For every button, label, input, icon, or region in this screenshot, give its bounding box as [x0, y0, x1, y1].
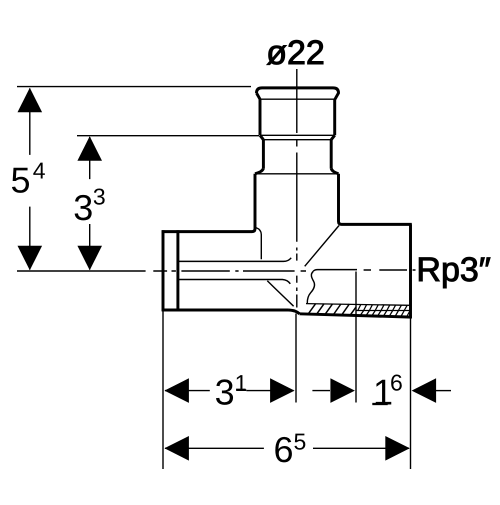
branch base left wall [252, 174, 255, 232]
flare bottom edge [255, 173, 339, 175]
label 3^1 [215, 370, 248, 413]
label 3^3 [73, 184, 105, 228]
svg-text:3: 3 [73, 187, 93, 228]
bottom extension line branch center [295, 314, 297, 403]
press groove lower ledge [263, 139, 331, 141]
dimension 65 arrows [164, 436, 409, 461]
press groove upper ledge [260, 134, 335, 136]
body bottom edge left [162, 309, 289, 312]
body left face [162, 230, 165, 311]
dimension 65 line [165, 447, 409, 449]
bottom extension line right [410, 319, 412, 470]
socket upper walls [260, 99, 335, 135]
branch base right wall [339, 174, 342, 225]
dimension 31 line [165, 390, 294, 392]
bottom extension line left [162, 312, 164, 470]
branch vertical centerline [296, 69, 298, 308]
dimension 16 left outside arrow [312, 390, 330, 392]
bottom extension line thread start [355, 272, 357, 403]
bottom step curve [289, 310, 300, 314]
svg-text:5: 5 [10, 159, 30, 200]
body right face [409, 224, 412, 318]
svg-text:3: 3 [215, 372, 235, 413]
svg-text:4: 4 [33, 157, 46, 183]
dimension 54 arrows [18, 88, 43, 271]
interior sweep curve [267, 281, 293, 306]
svg-text:1: 1 [235, 370, 248, 396]
socket flare [255, 168, 339, 174]
dimension 33 extension line [77, 135, 259, 137]
thread break wavy line [307, 271, 314, 303]
label 5^4 [10, 157, 45, 200]
dimension 54 extension line top [17, 86, 251, 88]
fine hatch strokes lower row [361, 311, 410, 317]
coarse hatch strokes [308, 304, 356, 315]
dimension 16 right outside arrow [436, 390, 451, 392]
dimension 54 line [29, 89, 31, 270]
svg-text:3: 3 [93, 184, 106, 210]
upper bore line [179, 258, 291, 262]
dimension 33 arrows [77, 136, 102, 270]
body bottom edge right [300, 314, 412, 317]
press groove slants [260, 135, 335, 139]
thread section hatch middle line [356, 310, 410, 312]
svg-text:Rp3″: Rp3″ [416, 251, 490, 289]
horizontal run centerline [17, 270, 416, 271]
branch interior left wall [256, 228, 261, 260]
svg-text:ø22: ø22 [266, 34, 325, 72]
thread section hatch top line [306, 304, 410, 306]
bead bottom edge [259, 98, 336, 100]
svg-text:5: 5 [294, 428, 307, 454]
label 6^5 [274, 428, 307, 470]
dimension 31 arrows [164, 378, 294, 403]
dimension 33 line [89, 137, 91, 270]
label 1^6 [372, 370, 402, 413]
left socket bead inner line [176, 230, 179, 311]
svg-text:6: 6 [390, 370, 403, 396]
fine hatch strokes upper row [358, 305, 407, 311]
top press socket bead [257, 88, 339, 99]
body top edge right [342, 223, 412, 226]
svg-text:6: 6 [274, 429, 294, 470]
socket middle walls [263, 140, 331, 169]
branch interior right diagonal [305, 226, 339, 267]
thread bore top line [313, 270, 357, 272]
lower bore line [179, 280, 290, 284]
body top edge left [162, 230, 252, 233]
